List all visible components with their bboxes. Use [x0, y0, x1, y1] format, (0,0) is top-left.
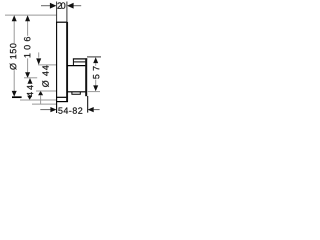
arrow D150 up: [12, 15, 17, 21]
label 44 rotated: [27, 85, 33, 97]
wire: dim57 top extension y56.9: [87, 56, 101, 58]
knob collar inner line y61.9: [74, 61, 86, 63]
wall bar x67.1 thick: [66, 22, 68, 102]
arrow dim57 up: [93, 57, 98, 63]
dimension line 57 lower bit: [95, 80, 97, 86]
node D150 bottom reference bar: [12, 96, 22, 98]
label D150 rotated: [10, 44, 17, 70]
dimension line D150 upper segment x14.2: [13, 21, 15, 44]
knob collar left step x73.4: [72, 59, 74, 66]
dimension line D106 lower segment: [27, 58, 29, 72]
knob front bar x86.2 thick: [85, 58, 87, 96]
label 106 rotated: [24, 37, 30, 57]
arrow D150 down: [12, 91, 17, 97]
knob bottom box: [72, 92, 80, 94]
wire: dim20 left tail: [41, 5, 50, 7]
knob bottom edge y91.8: [67, 91, 85, 93]
dimension line D150 lower segment: [13, 70, 15, 92]
arrow dim44wall up: [28, 78, 33, 84]
arrow dimD44 down: [36, 58, 41, 64]
node dim20 right extension line x67: [66, 2, 68, 23]
wire: dimD44 bottom stem: [40, 95, 42, 104]
wire: dim54-82 left tail: [40, 109, 50, 111]
arrow dim20 right-pointing: [50, 3, 57, 9]
wire: dimD44 top stem: [38, 52, 40, 57]
dimension line 57 upper bit: [95, 63, 97, 66]
node dim20 left extension line x56: [56, 2, 58, 23]
arrow dim54-82 left-pointing: [88, 107, 94, 112]
arrow dim57 down: [93, 85, 98, 91]
wire: dim20 right tail: [73, 5, 81, 7]
wire: wall min line y100: [20, 99, 56, 101]
wire: knob top extension line y64.8: [38, 64, 56, 66]
background: [0, 0, 112, 120]
knob under extension x87.7: [87, 96, 89, 113]
wall bottom line y101.6: [56, 101, 68, 103]
arrow D106 down: [25, 72, 30, 78]
label 57 rotated: [93, 66, 99, 78]
plate bottom edge y97.3: [56, 96, 67, 98]
arrow dimD44 up: [38, 91, 43, 95]
plate top edge y22.2: [56, 21, 67, 23]
arrow D106 up: [25, 15, 30, 21]
knob collar top y58.9: [73, 58, 87, 60]
label 54-82: [58, 107, 82, 113]
wire: knob bottom extension line left y91: [36, 90, 56, 92]
wire: top extension line y15: [5, 14, 56, 16]
arrow dim44wall down: [27, 96, 32, 100]
arrow dim20 left-pointing: [67, 3, 74, 9]
label 20: [57, 2, 65, 8]
wire: shared reference line y77.8: [24, 77, 37, 79]
arrow dim54-82 right-pointing: [50, 107, 56, 112]
wire: dim54-82 right tail: [94, 109, 100, 111]
wire: dim57 bottom reference y91.6: [88, 91, 100, 93]
knob top edge y65.6: [67, 65, 85, 67]
wire: wall max line y104: [32, 103, 56, 105]
plate left edge x56.6: [56, 22, 58, 113]
dimension line D106 upper segment x27.6: [27, 21, 29, 36]
label D44 rotated: [42, 66, 49, 88]
